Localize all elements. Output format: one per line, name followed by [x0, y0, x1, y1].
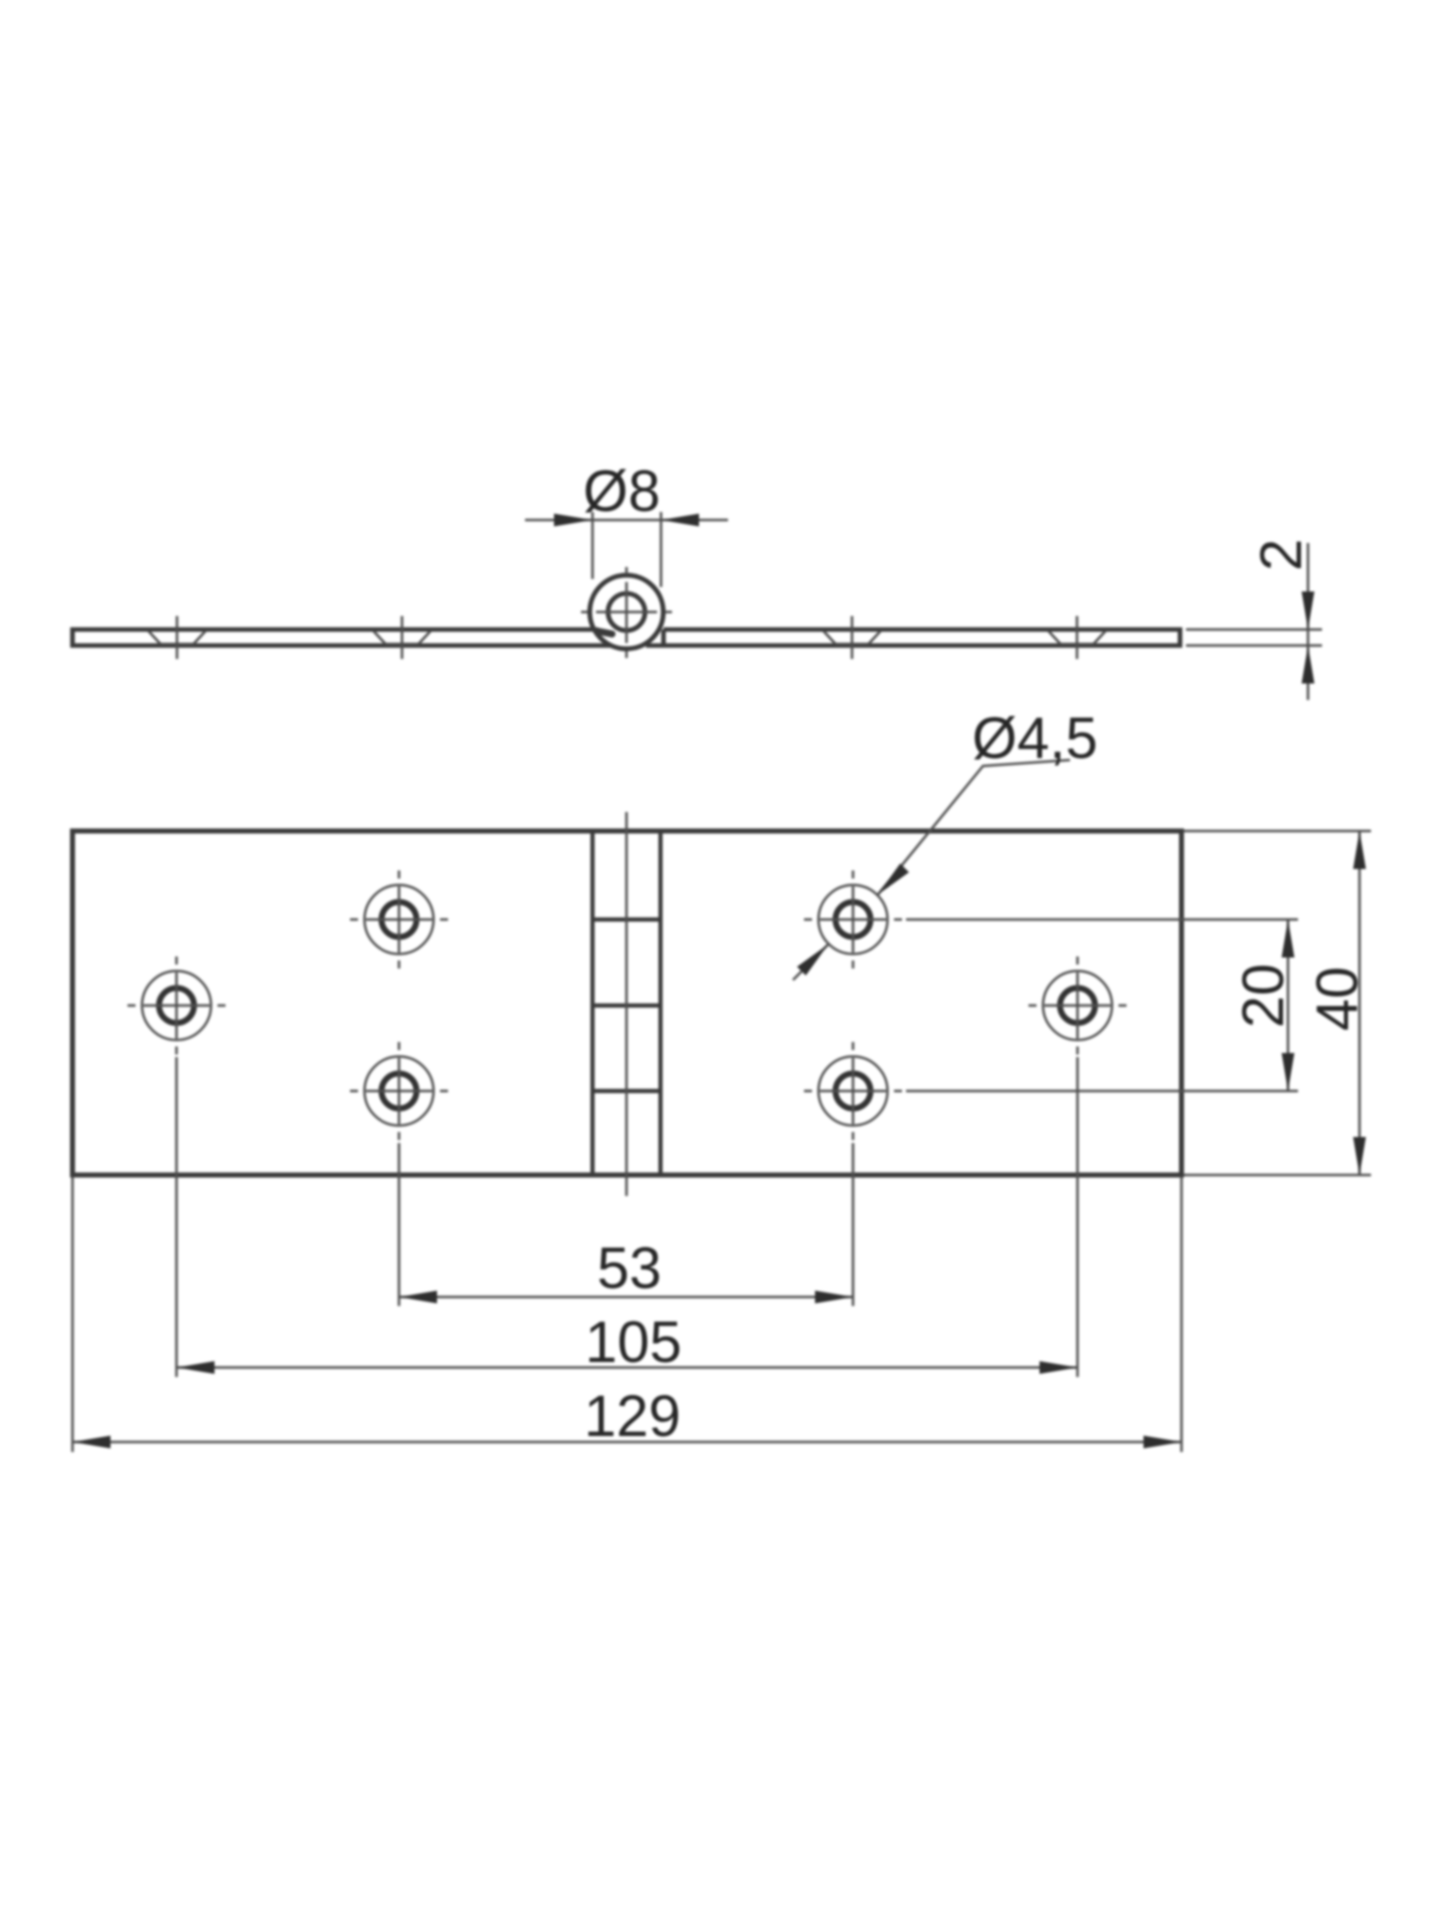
knuckle joint right edge	[658, 831, 662, 1175]
dimension 2 line	[1307, 543, 1310, 700]
svg-text:Ø8: Ø8	[583, 459, 660, 524]
svg-text:40: 40	[1305, 966, 1370, 1031]
knuckle outer circle (side view)	[590, 575, 664, 649]
hole E (right column bottom)	[804, 1042, 902, 1140]
dimension 53 line	[399, 1296, 853, 1299]
countersink hole 4 (side view) centerline	[1076, 616, 1079, 659]
knuckle pin hole circle (side view)	[608, 594, 645, 631]
dimension 2 top arrow	[1302, 592, 1315, 630]
svg-text:105: 105	[585, 1310, 682, 1375]
hole C (left column bottom)	[350, 1042, 448, 1140]
dimension 40 bottom arrow	[1353, 1137, 1366, 1175]
extension line from plate right corner down	[1180, 1177, 1183, 1452]
svg-text:2: 2	[1249, 539, 1314, 571]
knuckle centerline horizontal	[581, 611, 672, 614]
dimension D4,5 leader upper segment	[878, 760, 1070, 895]
dimension 53 left arrow	[399, 1291, 437, 1304]
dimension 40 extension lines	[1184, 831, 1371, 1175]
hole F (right outer)	[1029, 957, 1127, 1055]
hinge plate outline	[73, 831, 1182, 1175]
wire left leaf outline	[73, 630, 612, 646]
knuckle joint left edge	[590, 831, 594, 1175]
dimension 20 line	[1287, 920, 1290, 1092]
extension line from hole A down	[175, 1057, 178, 1377]
extension line from hole E down	[852, 1143, 855, 1306]
dimension D8 line	[525, 519, 728, 522]
dimension D8 left arrow	[554, 514, 593, 527]
dimension D4,5 upper arrow	[878, 864, 909, 895]
countersink hole 1 (side view) centerline	[176, 616, 179, 659]
dimension 129 line	[73, 1441, 1182, 1444]
knuckle centerline vertical	[625, 567, 628, 658]
countersink hole 3 profile	[823, 631, 881, 645]
dimension 129 right arrow	[1144, 1436, 1182, 1449]
countersink hole 2 (side view) centerline	[401, 616, 404, 659]
dimension 129 left arrow	[73, 1436, 111, 1449]
hole D (right column top)	[804, 871, 902, 969]
dimension 53 right arrow	[815, 1291, 853, 1304]
countersink hole 3 (side view) centerline	[851, 616, 854, 659]
dimension 20 top arrow	[1282, 920, 1295, 958]
svg-text:Ø4,5: Ø4,5	[972, 706, 1098, 771]
countersink hole 1 profile	[148, 631, 206, 645]
extension line from hole C down	[398, 1143, 401, 1306]
hinge pin axis centerline	[625, 812, 628, 1196]
dimension 105 left arrow	[177, 1361, 215, 1374]
dimension D4,5 leader lower segment	[793, 944, 828, 980]
dimension 20 extension lines	[906, 920, 1298, 1092]
knuckle curl detail	[597, 631, 612, 634]
extension line from plate left corner down	[71, 1177, 74, 1452]
dimension D4,5 lower arrow	[797, 944, 828, 975]
svg-text:53: 53	[597, 1236, 662, 1301]
extension line from hole F down	[1076, 1057, 1079, 1377]
countersink hole 4 profile	[1048, 631, 1106, 645]
hole B (left column top)	[350, 871, 448, 969]
dimension 40 line	[1358, 831, 1361, 1175]
dimension 105 right arrow	[1040, 1361, 1078, 1374]
dimension 105 line	[177, 1366, 1078, 1369]
svg-text:129: 129	[584, 1384, 681, 1449]
wire right leaf outline	[646, 630, 1180, 646]
hole A (left outer)	[128, 957, 226, 1055]
dimension 40 top arrow	[1353, 831, 1366, 869]
countersink hole 2 profile	[373, 631, 431, 645]
dimension D8 extension lines	[593, 512, 662, 587]
svg-text:20: 20	[1231, 963, 1296, 1028]
dimension 2 extension lines	[1186, 630, 1322, 646]
knuckle segment line 2	[593, 1003, 661, 1007]
knuckle segment line 1	[593, 917, 661, 921]
dimension 20 bottom arrow	[1282, 1053, 1295, 1091]
wire right leaf end edge at knuckle	[661, 630, 666, 646]
dimension 2 bottom arrow	[1302, 646, 1315, 684]
dimension D8 right arrow	[661, 514, 699, 527]
knuckle segment line 3	[593, 1089, 661, 1093]
